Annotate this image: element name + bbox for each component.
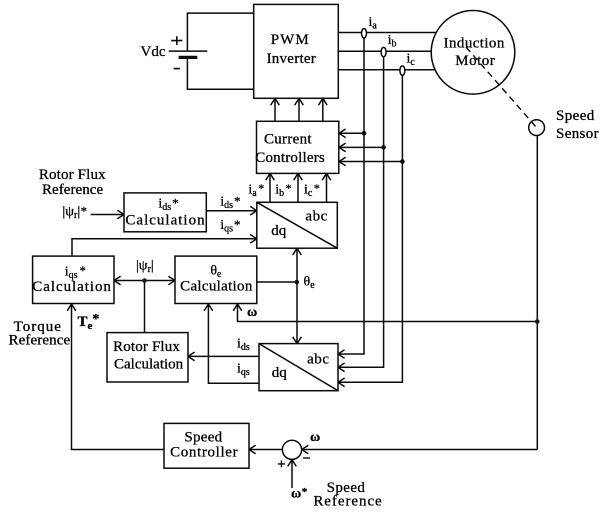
svg-text:Calculation: Calculation (125, 213, 205, 229)
wire ids* calc to dq-abc (206, 210, 256, 212)
svg-text:ω: ω (247, 305, 257, 320)
node ic tap junction (400, 159, 405, 164)
svg-text:Induction: Induction (444, 36, 505, 52)
wire ib* dq-abc to current controllers (297, 173, 299, 202)
wire battery top to PWM inverter (187, 13, 253, 51)
block ids* Calculation (124, 193, 206, 232)
svg-text:Calculation: Calculation (114, 357, 184, 373)
wire iqs* calc to dq-abc (72, 239, 257, 256)
wire current controllers to PWM arrow 1 (274, 98, 276, 121)
arrowhead ib into abc block (338, 363, 345, 372)
wire omega feedback to theta-e calc (238, 304, 538, 322)
block iqs* Calculation (33, 256, 114, 303)
block Rotor Flux Calculation (107, 333, 188, 382)
label battery minus (174, 68, 180, 70)
wire phase b PWM to motor (338, 50, 432, 52)
current sensor ellipse ic (400, 66, 405, 75)
svg-text:Calculation: Calculation (32, 279, 112, 295)
block abc to dq transform (259, 344, 338, 391)
wire ic* dq-abc to current controllers (326, 173, 328, 202)
node theta-e junction (295, 280, 300, 285)
svg-text:Motor: Motor (455, 53, 495, 69)
arrowhead ia into current controllers (339, 129, 346, 138)
svg-text:Controller: Controller (170, 445, 238, 461)
svg-text:Speed: Speed (556, 108, 595, 124)
svg-text:Sensor: Sensor (556, 126, 599, 142)
wire ids abc-dq to rotor flux calc (188, 355, 259, 357)
node ib tap junction (381, 145, 386, 150)
wire current controllers to PWM arrow 3 (322, 98, 324, 121)
svg-text:abc: abc (305, 209, 327, 225)
label battery plus (171, 36, 182, 45)
battery Vdc long plate (169, 50, 208, 52)
induction motor circle (431, 11, 515, 95)
wire iqs abc-dq to theta-e calc (208, 304, 259, 383)
wire current controllers to PWM arrow 2 (298, 98, 300, 121)
arrowhead ic into abc block (338, 378, 345, 387)
svg-text:Reference: Reference (42, 182, 104, 198)
svg-text:Inverter: Inverter (267, 51, 316, 67)
svg-text:Rotor Flux: Rotor Flux (39, 167, 106, 183)
current sensor ellipse ib (381, 47, 386, 56)
wire ia sense line down (338, 37, 364, 354)
wire ic sense line down (338, 75, 402, 383)
wire phase c PWM to motor (338, 69, 437, 71)
block Current Controllers (257, 121, 339, 173)
svg-text:Rotor Flux: Rotor Flux (113, 339, 180, 355)
battery Vdc short plate (179, 56, 198, 59)
speed sensor circle (529, 120, 545, 136)
wire ic branch to current controllers (339, 161, 402, 163)
wire summing junction to speed controller (249, 449, 283, 451)
svg-text:dq: dq (271, 223, 287, 239)
summing junction circle (282, 440, 301, 459)
svg-text:Vdc: Vdc (141, 44, 166, 60)
wire ib sense line down (338, 56, 384, 367)
wire theta-e up to dq-abc (296, 248, 298, 282)
wire omega* reference input (291, 460, 293, 488)
wire theta-e down to abc-dq (296, 282, 298, 344)
node ia tap junction (362, 131, 367, 136)
label plus at summing junction (278, 461, 285, 468)
wire phase a PWM to motor (338, 32, 437, 34)
wire psi-r double arrow iqs*calc to theta-e calc (114, 280, 175, 282)
wire theta-e output (257, 281, 297, 283)
svg-text:ω: ω (310, 430, 320, 445)
wire speed sensor down (536, 136, 538, 450)
node omega junction (535, 319, 540, 324)
arrowhead ib into current controllers (339, 143, 346, 152)
block Speed Controller (164, 423, 249, 468)
block theta-e Calculation (175, 256, 257, 303)
svg-text:Reference: Reference (9, 333, 71, 349)
wire omega to summing junction (302, 449, 538, 451)
svg-text:Speed: Speed (184, 430, 222, 446)
svg-text:Current: Current (264, 131, 312, 147)
wire ia branch to current controllers (339, 132, 364, 134)
svg-text:Reference: Reference (313, 494, 382, 510)
label minus at summing junction (303, 457, 310, 459)
svg-text:dq: dq (272, 365, 288, 381)
node psi-r junction (142, 278, 147, 283)
arrowhead ic into current controllers (339, 157, 346, 166)
wire Te* speed controller to iqs* calc (72, 304, 165, 450)
current sensor ellipse ia (362, 29, 367, 38)
wire ib branch to current controllers (339, 146, 384, 148)
arrowhead ia into abc block (338, 350, 345, 359)
wire psi-r down to rotor flux calc (144, 281, 146, 333)
shaft dashed line motor to speed sensor (466, 47, 537, 128)
svg-text:PWM: PWM (271, 32, 310, 48)
wire psi-r reference input (91, 214, 124, 216)
wire ia* dq-abc to current controllers (269, 173, 271, 202)
svg-text:|ψr|: |ψr| (136, 259, 154, 276)
svg-text:Calculation: Calculation (180, 279, 253, 295)
wire battery bottom to PWM inverter (187, 57, 253, 89)
block dq to abc transform (257, 202, 338, 248)
svg-text:Controllers: Controllers (255, 150, 325, 166)
block PWM Inverter (254, 4, 339, 98)
svg-text:abc: abc (307, 352, 329, 368)
